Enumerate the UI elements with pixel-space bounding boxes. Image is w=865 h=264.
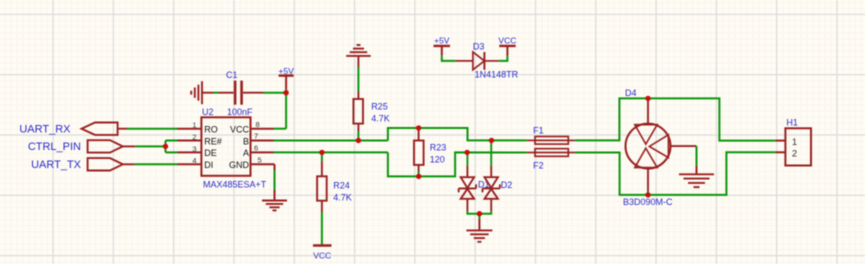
wire B row pin7 segment <box>274 140 388 142</box>
wire D3 to VCC <box>499 56 508 61</box>
svg-text:4: 4 <box>192 156 196 165</box>
junction R24/A <box>319 150 324 155</box>
svg-text:1N4148TR: 1N4148TR <box>475 69 519 79</box>
junction R23 top <box>416 125 421 130</box>
svg-text:D2: D2 <box>501 180 513 190</box>
port UART_RX <box>82 123 128 135</box>
wire F1 to top route <box>575 98 775 140</box>
svg-text:UART_RX: UART_RX <box>19 123 71 135</box>
wire ground to R25 <box>357 67 359 92</box>
connector H1 <box>775 128 811 165</box>
gas discharge tube D4 <box>626 100 697 191</box>
pin 4 stub <box>178 163 201 165</box>
svg-text:F1: F1 <box>533 126 544 136</box>
wire D4 bottom to route <box>647 191 649 195</box>
junction D1/A <box>464 150 469 155</box>
svg-text:120: 120 <box>430 155 445 165</box>
wire B jog up <box>388 128 527 141</box>
wire junction vertical <box>165 141 167 153</box>
svg-text:R23: R23 <box>430 143 447 153</box>
svg-text:MAX485ESA+T: MAX485ESA+T <box>203 180 267 190</box>
svg-text:DE: DE <box>204 148 217 158</box>
power VCC flag top <box>498 35 516 55</box>
junction D2/B <box>489 138 494 143</box>
svg-text:4.7K: 4.7K <box>371 114 390 124</box>
svg-text:2: 2 <box>792 149 797 160</box>
wire D4 right to ground <box>696 146 698 174</box>
pin 1 stub <box>178 128 201 130</box>
pin numbers U2 <box>192 121 196 166</box>
capacitor C1 <box>219 81 264 105</box>
svg-text:B: B <box>243 136 249 146</box>
wire junction to ground <box>478 214 480 231</box>
svg-text:8: 8 <box>256 120 260 129</box>
resistor R25 <box>353 92 363 132</box>
ground (below pin5) <box>262 201 287 211</box>
port UART_TX <box>88 158 135 170</box>
resistor R23 <box>414 130 424 177</box>
ground (rotated, left of C1) <box>191 81 213 104</box>
pin names U2 <box>204 125 222 171</box>
svg-text:GND: GND <box>229 160 250 170</box>
ground (right of D4) <box>679 174 714 187</box>
wire pin5 to ground <box>274 164 276 200</box>
power +5V flag <box>278 66 294 89</box>
svg-text:VCC: VCC <box>313 250 331 260</box>
junction +5V/C1 <box>283 90 288 95</box>
diode D3 <box>456 52 499 70</box>
svg-text:C1: C1 <box>226 70 238 80</box>
svg-text:RO: RO <box>204 125 218 135</box>
pin 8 stub <box>251 128 274 130</box>
svg-text:CTRL_PIN: CTRL_PIN <box>28 141 81 153</box>
wire A jog down <box>388 152 527 176</box>
svg-text:R24: R24 <box>333 181 350 191</box>
wire D1-D2 bottom join <box>467 211 491 213</box>
wire to pin3 <box>166 151 178 153</box>
fuse F1 <box>527 137 575 145</box>
port CTRL_PIN <box>88 140 136 152</box>
svg-text:D4: D4 <box>625 88 637 98</box>
svg-text:B3D090M-C: B3D090M-C <box>623 197 673 207</box>
power VCC flag bottom <box>313 246 332 261</box>
wire UART_TX to pin4 <box>134 163 177 165</box>
wire to pin2 <box>166 140 178 142</box>
svg-text:A: A <box>243 148 249 158</box>
svg-text:F2: F2 <box>533 160 544 170</box>
svg-text:2: 2 <box>192 132 196 141</box>
junction D1D2 gnd <box>477 211 482 216</box>
svg-text:H1: H1 <box>786 118 798 128</box>
diode D1 (TVS) <box>459 152 476 211</box>
wire F2 to bottom route <box>575 152 775 195</box>
wire +5V to D3 <box>442 56 456 61</box>
wire to pin8 <box>274 128 287 130</box>
svg-text:DI: DI <box>204 160 213 170</box>
svg-text:U2: U2 <box>202 107 214 117</box>
resistor R24 <box>317 152 327 212</box>
wire ground to C1 <box>214 92 219 94</box>
fuse F2 <box>527 149 575 157</box>
svg-text:3: 3 <box>192 144 196 153</box>
junction CTRL <box>163 144 168 149</box>
svg-text:+5V: +5V <box>434 35 450 45</box>
pin 7 stub <box>251 140 274 142</box>
svg-text:R25: R25 <box>371 102 388 112</box>
svg-text:5: 5 <box>258 156 262 165</box>
pin 3 stub <box>178 151 201 153</box>
ground (below D1 D2) <box>466 230 492 241</box>
wire A row pin6 segment <box>274 151 388 153</box>
svg-text:1: 1 <box>792 137 797 148</box>
svg-text:VCC: VCC <box>498 35 516 45</box>
svg-text:RE#: RE# <box>204 136 222 146</box>
junction R25/B <box>356 138 361 143</box>
pin 6 stub <box>251 151 274 153</box>
wire C1 to +5V node <box>263 92 286 94</box>
wire R24 to VCC <box>321 212 323 246</box>
wire UART_RX to pin1 <box>127 128 178 130</box>
wire +5V down <box>285 89 287 129</box>
pin 5 stub <box>251 163 275 165</box>
svg-text:4.7K: 4.7K <box>333 193 352 203</box>
junction D4 top <box>645 96 650 101</box>
svg-text:VCC: VCC <box>230 125 250 135</box>
junction D4 bottom <box>645 192 650 197</box>
power +5V flag top (D3) <box>434 35 451 55</box>
wire R25 to B row <box>357 131 359 141</box>
junction R23 bottom <box>416 174 421 179</box>
svg-text:D3: D3 <box>473 42 485 52</box>
pin 2 stub <box>178 140 201 142</box>
wire CTRL_PIN to junction <box>135 145 165 147</box>
svg-text:1: 1 <box>192 121 196 130</box>
op-amp U2 MAX485ESA+T body <box>178 117 275 176</box>
diode D2 (TVS) <box>483 140 500 211</box>
svg-text:UART_TX: UART_TX <box>31 159 82 171</box>
svg-text:+5V: +5V <box>278 66 294 76</box>
ground (inverted, above R25) <box>346 45 371 67</box>
svg-text:7: 7 <box>254 131 258 140</box>
svg-text:6: 6 <box>254 144 258 153</box>
svg-text:100nF: 100nF <box>227 107 253 117</box>
